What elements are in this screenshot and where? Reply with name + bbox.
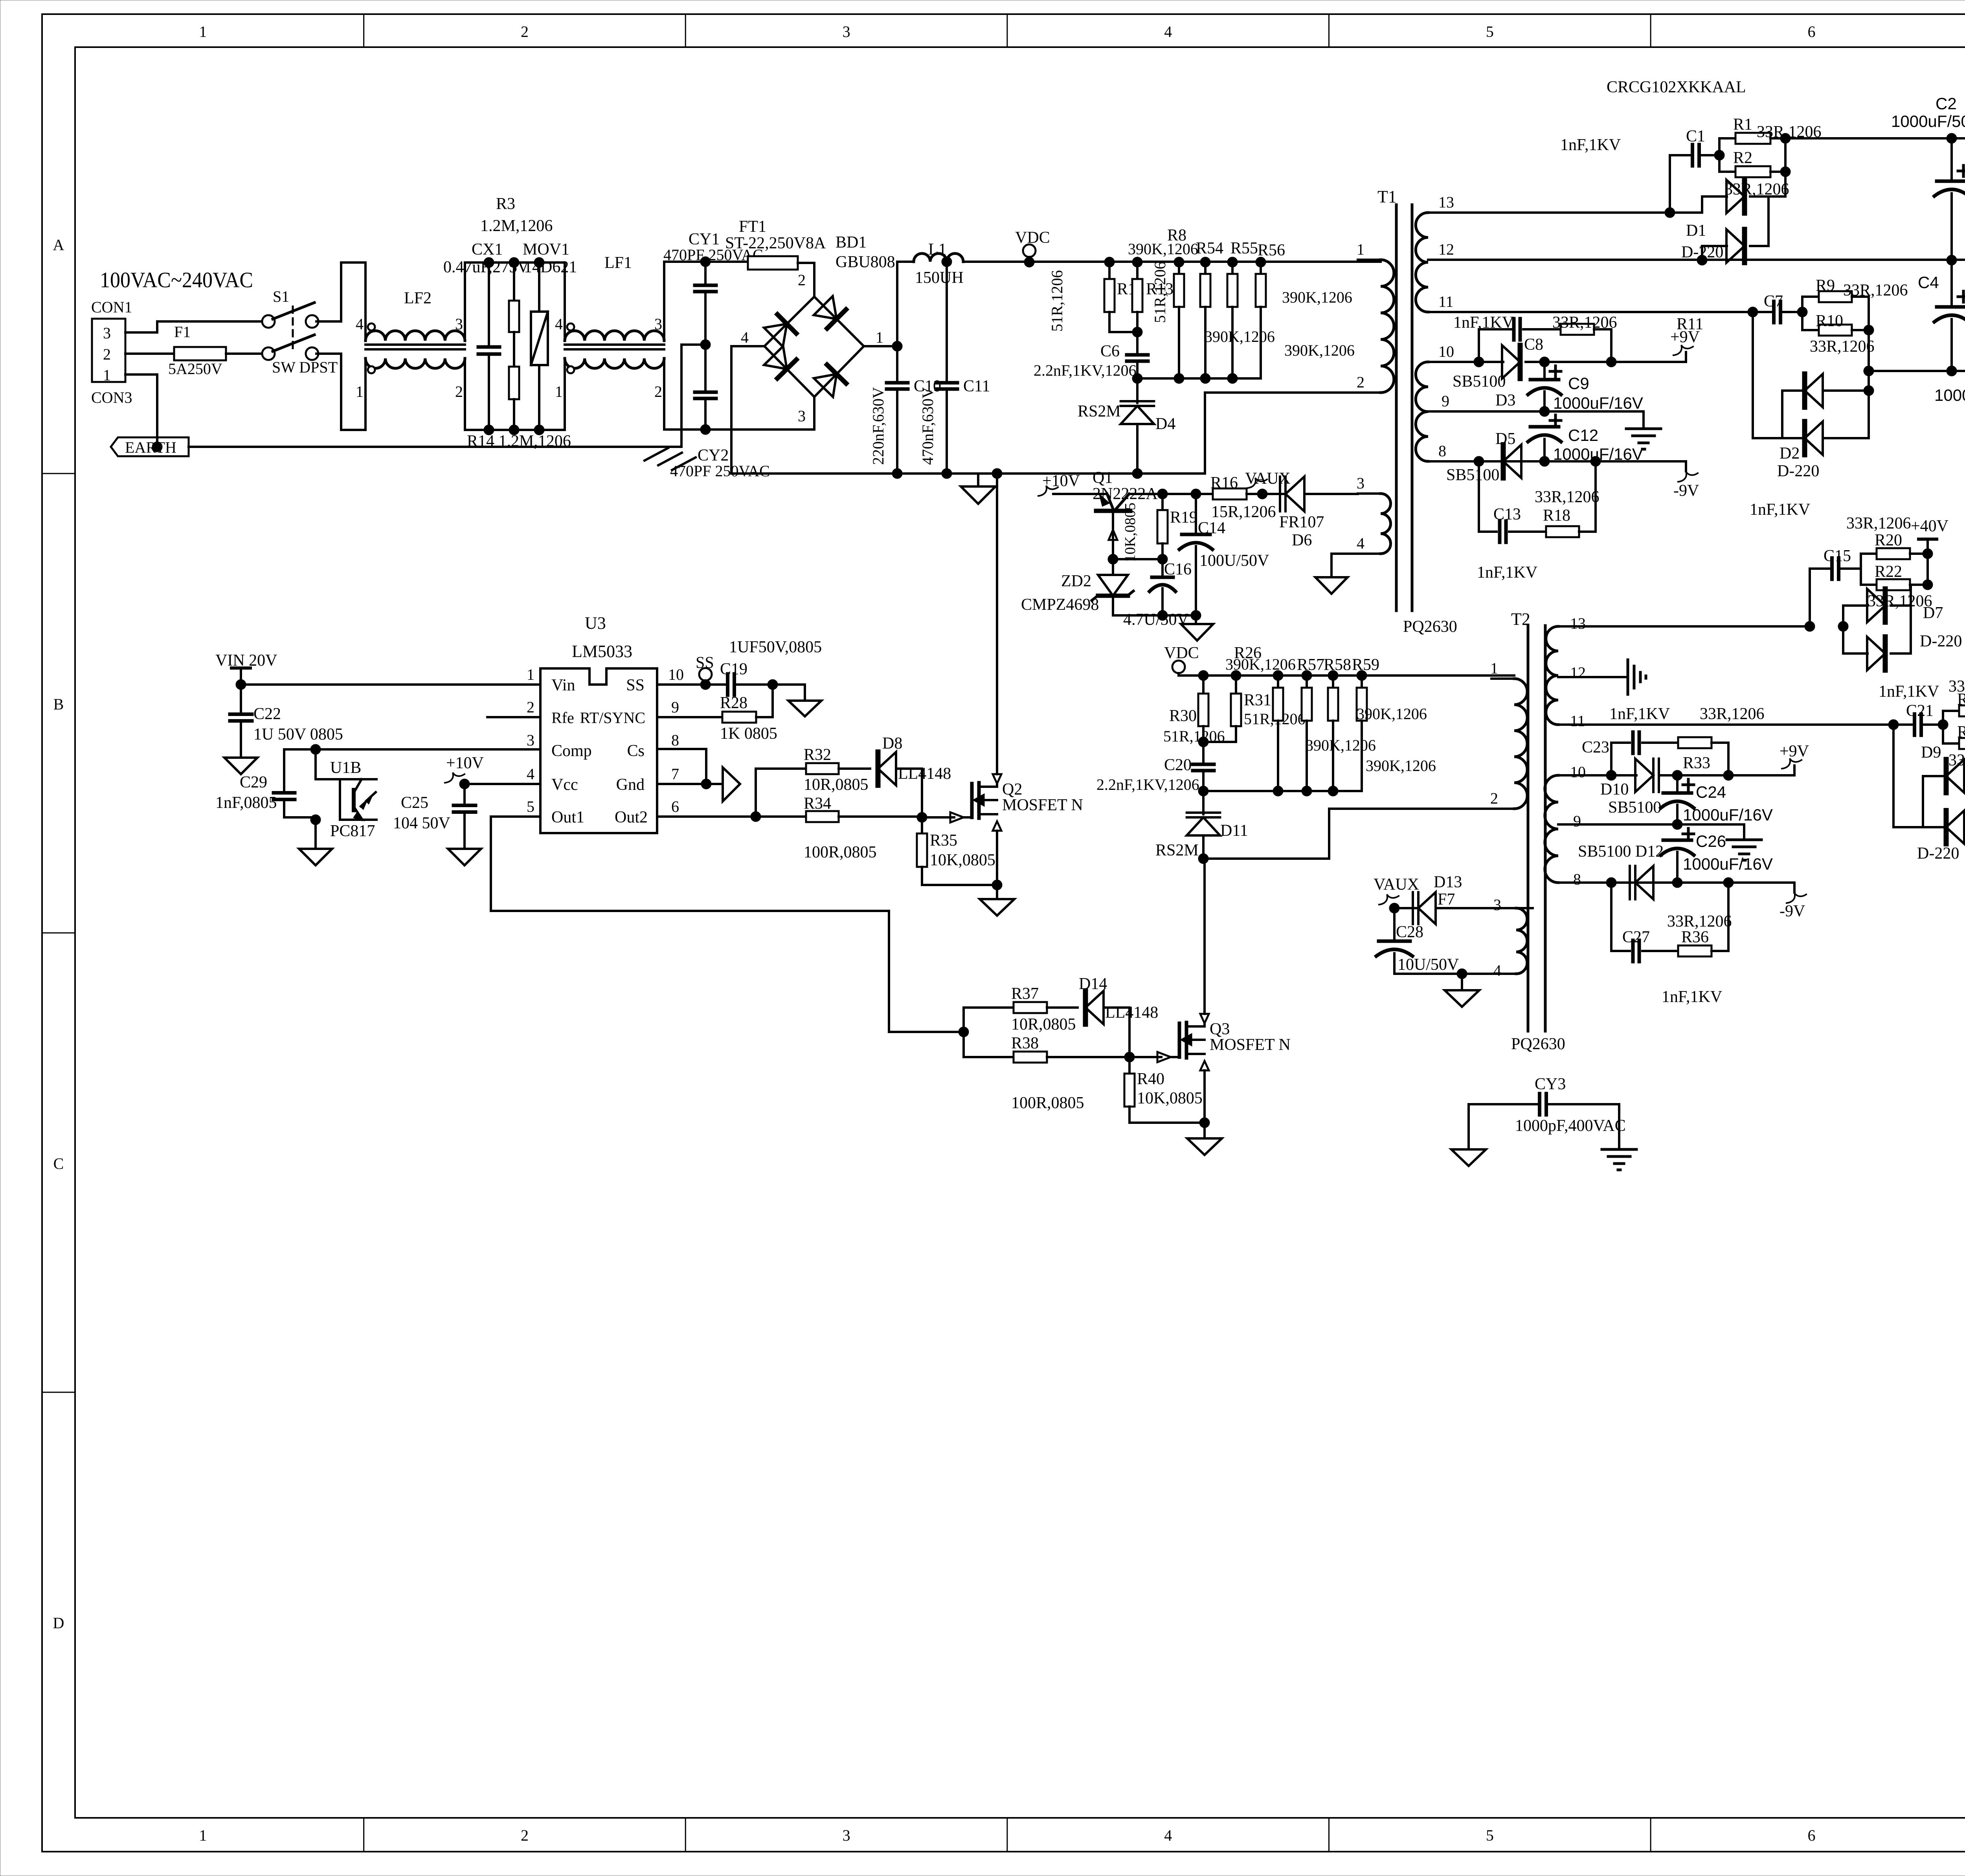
svg-text:D13: D13 — [1434, 873, 1462, 891]
wire Q1 base to R19/C16 node — [1108, 554, 1162, 576]
wire T1 pin9 to gnd — [1454, 411, 1644, 429]
svg-text:R2: R2 — [1733, 149, 1752, 167]
capacitor C24 1000uF/16V — [1661, 775, 1773, 830]
fuse FT1 — [725, 218, 826, 270]
capacitor C26 1000uF/16V — [1661, 828, 1773, 888]
svg-text:2: 2 — [654, 383, 662, 400]
svg-text:GBU808: GBU808 — [836, 253, 895, 271]
wire F1 to S1 — [226, 352, 264, 355]
svg-text:D-220: D-220 — [1777, 462, 1819, 480]
svg-text:10: 10 — [668, 666, 684, 683]
svg-text:R38: R38 — [1011, 1034, 1039, 1052]
svg-text:1nF,1KV: 1nF,1KV — [1879, 683, 1939, 701]
svg-text:R59: R59 — [1352, 656, 1379, 674]
svg-text:R10: R10 — [1816, 312, 1843, 330]
MOSFET Q2 — [922, 780, 1083, 822]
svg-text:1: 1 — [555, 383, 563, 400]
transformer T1 — [1357, 187, 1457, 636]
svg-text:2: 2 — [1490, 789, 1498, 807]
wire T1 pin13 to D1 — [1454, 207, 1702, 218]
svg-text:R28: R28 — [720, 694, 747, 712]
label CRCG102XKKAAL — [1607, 78, 1746, 96]
svg-text:1: 1 — [1490, 659, 1498, 677]
capacitor C28 — [1376, 908, 1499, 979]
resistor R54 — [1196, 239, 1223, 384]
svg-text:C20: C20 — [1164, 756, 1192, 774]
diode D14 LL4148 — [1079, 975, 1158, 1057]
svg-text:1000uF/16V: 1000uF/16V — [1553, 394, 1643, 412]
svg-text:C22: C22 — [253, 705, 281, 723]
resistor R10 — [1802, 312, 1875, 356]
buffer symbol (Cs) — [723, 767, 740, 801]
diode D1 D-220 (dual) — [1681, 138, 1785, 262]
wire CON1 pin3 to S1 — [125, 321, 264, 332]
diode D2 D-220 (dual) — [1753, 297, 1874, 480]
wire U3 pin3 (Comp) — [284, 744, 540, 754]
svg-text:D6: D6 — [1292, 531, 1312, 549]
svg-text:Out1: Out1 — [551, 808, 584, 826]
svg-text:390K,1206: 390K,1206 — [1225, 655, 1296, 673]
svg-text:1nF,1KV: 1nF,1KV — [1453, 314, 1514, 332]
svg-text:SB5100 D12: SB5100 D12 — [1578, 843, 1664, 861]
svg-text:2: 2 — [103, 345, 111, 363]
svg-text:1nF,0805: 1nF,0805 — [215, 794, 277, 812]
diode D8 LL4148 — [878, 734, 951, 817]
diode D7 D-220 (dual) — [1843, 585, 1962, 701]
node VIN 20V — [215, 652, 277, 690]
svg-text:C23: C23 — [1582, 738, 1609, 756]
svg-text:S1: S1 — [273, 288, 289, 305]
svg-text:CON1: CON1 — [91, 298, 132, 316]
svg-text:C29: C29 — [240, 773, 267, 791]
svg-text:D5: D5 — [1495, 430, 1515, 448]
svg-text:1: 1 — [199, 23, 207, 40]
ground Q2 source — [980, 885, 1014, 916]
svg-text:SB5100: SB5100 — [1453, 373, 1506, 391]
svg-text:C: C — [53, 1155, 64, 1173]
wire T2 pin9 to gnd — [1584, 824, 1744, 840]
resistor R33 — [1678, 737, 1734, 780]
svg-text:Rfe: Rfe — [551, 709, 574, 727]
resistor R57 — [1297, 656, 1324, 796]
capacitor C12 1000uF/16V — [1528, 415, 1643, 466]
wire LF2 pin2 to LF1 pin1 (bottom rail) — [484, 425, 565, 435]
svg-text:VDC: VDC — [1164, 644, 1199, 662]
svg-text:CON3: CON3 — [91, 389, 132, 406]
svg-text:FR107: FR107 — [1279, 513, 1324, 531]
wire aux gnd node — [1113, 615, 1196, 624]
capacitor C20 — [1096, 742, 1214, 796]
node VDC (primary) — [1015, 229, 1050, 262]
svg-text:R56: R56 — [1258, 241, 1285, 259]
ground C25 — [448, 849, 481, 865]
ground (C14/C16/ZD2) — [1123, 611, 1213, 641]
node +10V (Vcc) — [445, 754, 540, 789]
resistor R11 — [1561, 315, 1703, 367]
resistor R30 — [1163, 670, 1225, 747]
svg-text:VAUX: VAUX — [1245, 470, 1291, 488]
svg-text:F1: F1 — [174, 323, 191, 341]
svg-text:R58: R58 — [1324, 656, 1351, 674]
wire R32 to D8 — [839, 767, 870, 770]
capacitor C19 — [720, 638, 822, 695]
svg-text:33R,1206: 33R,1206 — [1667, 912, 1732, 931]
svg-text:3: 3 — [843, 23, 850, 40]
MOSFET Q3 — [1129, 1020, 1291, 1062]
svg-text:1UF50V,0805: 1UF50V,0805 — [729, 638, 822, 656]
svg-text:1K 0805: 1K 0805 — [720, 725, 777, 743]
svg-text:R18: R18 — [1543, 507, 1570, 525]
svg-text:Comp: Comp — [551, 742, 592, 760]
svg-text:SB5100: SB5100 — [1446, 466, 1499, 484]
wire Q3 source down — [1199, 1061, 1210, 1128]
svg-text:12: 12 — [1570, 664, 1586, 681]
capacitor C9 1000uF/16V — [1528, 362, 1643, 417]
svg-text:RT/SYNC: RT/SYNC — [580, 709, 645, 727]
capacitor C25 — [393, 784, 476, 849]
earth ground on EARTH rail — [645, 447, 696, 470]
resistor R40 — [1124, 1057, 1205, 1123]
svg-text:4: 4 — [1493, 962, 1501, 979]
resistor R26 — [1225, 644, 1296, 796]
resistor R12 — [1048, 257, 1144, 332]
resistor R18 — [1535, 461, 1600, 537]
svg-text:SB5100: SB5100 — [1608, 798, 1661, 817]
svg-text:1U 50V 0805: 1U 50V 0805 — [253, 725, 343, 743]
svg-text:ST-22,250V8A: ST-22,250V8A — [725, 234, 826, 252]
wire Q1 collector rail — [1129, 489, 1213, 499]
wire CON1 pin2 to F1 — [125, 352, 174, 355]
svg-text:VDC: VDC — [1015, 229, 1050, 247]
wire R16 to D6 — [1247, 489, 1286, 499]
svg-text:9: 9 — [1442, 392, 1449, 410]
svg-text:PQ2630: PQ2630 — [1511, 1035, 1565, 1053]
wire T2 pin12 — [1584, 676, 1627, 678]
wire VDC2 — [1179, 675, 1203, 676]
svg-text:R32: R32 — [804, 746, 831, 764]
svg-text:14D621: 14D621 — [524, 258, 577, 276]
transistor Q1 2N2222A — [1093, 469, 1158, 559]
wire R26 bank bottom node — [1203, 790, 1362, 792]
svg-text:T2: T2 — [1511, 609, 1530, 629]
svg-text:100VAC~240VAC: 100VAC~240VAC — [100, 268, 253, 292]
svg-text:MOSFET N: MOSFET N — [1002, 796, 1083, 814]
wire T1 pin12 mid rail (GND) — [1454, 255, 1957, 265]
svg-text:D-220: D-220 — [1917, 844, 1959, 863]
svg-text:ZD2: ZD2 — [1061, 572, 1091, 590]
svg-text:C19: C19 — [720, 660, 747, 678]
svg-text:+10V: +10V — [446, 754, 484, 772]
svg-text:33R,1206: 33R,1206 — [1552, 314, 1617, 332]
svg-text:4: 4 — [1357, 534, 1364, 552]
svg-text:1nF,1KV: 1nF,1KV — [1560, 136, 1621, 154]
svg-text:SW DPST: SW DPST — [272, 358, 338, 376]
ground T1 pin4 — [1315, 577, 1348, 594]
svg-text:390K,1206: 390K,1206 — [1205, 328, 1275, 345]
svg-text:R29: R29 — [1957, 723, 1965, 741]
svg-text:2: 2 — [1357, 373, 1364, 391]
svg-text:390K,1206: 390K,1206 — [1128, 240, 1198, 258]
capacitor C15 — [1750, 501, 1861, 626]
resistor R59 — [1352, 656, 1436, 791]
svg-text:FT1: FT1 — [739, 218, 766, 236]
svg-text:C27: C27 — [1622, 928, 1650, 946]
svg-text:1nF,1KV: 1nF,1KV — [1750, 501, 1810, 519]
wire S1 to LF2 pin4 — [316, 262, 365, 321]
svg-text:51R,1206: 51R,1206 — [1151, 261, 1169, 323]
node VAUX — [1245, 470, 1291, 488]
svg-text:2: 2 — [521, 1826, 529, 1844]
diode D9 D-220 (dual) — [1893, 711, 1965, 863]
wire T1 pin11 to C7 — [1454, 307, 1758, 317]
resistor R29 — [1943, 723, 1965, 769]
node +9V (D3) — [1670, 328, 1700, 362]
svg-text:8: 8 — [1438, 442, 1446, 460]
svg-text:CX1: CX1 — [472, 240, 503, 259]
wire FT1 to bridge pin2 — [798, 263, 814, 297]
svg-text:D: D — [53, 1614, 64, 1632]
svg-text:12: 12 — [1438, 240, 1454, 258]
resistor R9 — [1802, 277, 1908, 312]
svg-text:1nF,1KV: 1nF,1KV — [1477, 564, 1537, 582]
svg-text:L1: L1 — [928, 240, 947, 259]
diode D6 FR107 — [1279, 477, 1358, 549]
capacitor C16 — [1150, 560, 1192, 620]
capacitor CX1 — [443, 240, 529, 430]
svg-text:51R,1206: 51R,1206 — [1048, 270, 1066, 332]
svg-text:1nF,1KV: 1nF,1KV — [1609, 705, 1670, 723]
wire CY1/CY2 mid to EARTH rail — [681, 345, 705, 447]
svg-text:10R,0805: 10R,0805 — [1011, 1015, 1076, 1033]
resistor R27 — [1943, 677, 1965, 725]
resistor R19 — [1122, 494, 1197, 564]
ground Q3 source — [1187, 1123, 1222, 1155]
svg-text:390K,1206: 390K,1206 — [1357, 705, 1427, 723]
earth ground (T2 pin9) — [1727, 840, 1761, 860]
svg-text:VAUX: VAUX — [1374, 876, 1419, 894]
svg-text:A: A — [53, 236, 64, 254]
svg-text:3: 3 — [1357, 474, 1364, 492]
wire C6/R8 bank bottom node — [1137, 377, 1261, 380]
svg-text:C12: C12 — [1568, 426, 1598, 444]
diode D13 F7 — [1394, 890, 1533, 924]
svg-text:3: 3 — [654, 315, 662, 333]
svg-text:F7: F7 — [1438, 890, 1455, 909]
svg-text:D10: D10 — [1600, 780, 1629, 798]
svg-text:R35: R35 — [930, 832, 957, 850]
node SS — [696, 654, 714, 690]
snubber C13 — [1477, 461, 1546, 582]
capacitor C22 — [230, 685, 343, 758]
svg-text:33R,1206: 33R,1206 — [1810, 338, 1875, 356]
svg-text:10K,0805: 10K,0805 — [1137, 1089, 1203, 1107]
wire VIN to U3 pin1 — [241, 683, 540, 686]
svg-text:4: 4 — [555, 315, 563, 333]
svg-text:R36: R36 — [1681, 928, 1709, 946]
svg-text:5A250V: 5A250V — [168, 360, 222, 378]
svg-text:C21: C21 — [1906, 702, 1934, 720]
varistor MOV1 — [523, 240, 577, 430]
wire Q2 source down — [992, 821, 1002, 890]
svg-text:C16: C16 — [1164, 560, 1192, 578]
svg-text:2: 2 — [527, 698, 534, 716]
switch S1 — [262, 288, 338, 376]
svg-text:5: 5 — [1486, 23, 1494, 40]
wire mid rail GND right — [1952, 255, 1965, 265]
svg-text:C7: C7 — [1764, 292, 1783, 310]
svg-text:D14: D14 — [1079, 975, 1107, 993]
capacitor C14 — [1179, 494, 1269, 620]
svg-text:C24: C24 — [1696, 783, 1726, 801]
svg-text:R19: R19 — [1170, 508, 1197, 527]
snubber C8 — [1479, 319, 1561, 362]
wire T2 pin13 to D7 — [1584, 621, 1848, 631]
svg-text:R1: R1 — [1733, 116, 1752, 134]
diode D10 SB5100 — [1600, 759, 1794, 817]
svg-text:390K,1206: 390K,1206 — [1306, 736, 1376, 754]
svg-text:Vin: Vin — [551, 676, 575, 694]
svg-text:13: 13 — [1570, 615, 1586, 632]
wire Q2 drain to return rail — [992, 468, 1002, 787]
wire T2 pin11 to C21 — [1584, 720, 1899, 730]
svg-text:D1: D1 — [1686, 222, 1706, 240]
svg-text:EARTH: EARTH — [125, 439, 176, 456]
svg-text:D3: D3 — [1495, 391, 1515, 409]
bridge rectifier BD1 GBU808 — [741, 233, 895, 425]
svg-text:1: 1 — [876, 329, 883, 346]
svg-text:11: 11 — [1438, 293, 1454, 310]
diode D12 SB5100 — [1578, 843, 1664, 899]
capacitor C1 — [1560, 127, 1724, 213]
wire Out2 to R32 — [756, 769, 806, 817]
svg-text:MOV1: MOV1 — [523, 240, 569, 259]
svg-text:1: 1 — [103, 366, 111, 384]
resistor R55 — [1205, 239, 1275, 384]
svg-text:LF2: LF2 — [404, 289, 432, 307]
resistor R16 — [1210, 474, 1276, 521]
wire LF1 pin2 to bridge pin3 — [689, 397, 814, 430]
node VDC (push-pull 2) — [1164, 644, 1514, 676]
svg-text:R33: R33 — [1683, 754, 1710, 772]
wire primary return to T1 pin2 — [997, 393, 1358, 474]
svg-text:1nF,1KV: 1nF,1KV — [1662, 988, 1722, 1006]
node -9V (D12) — [1780, 883, 1806, 920]
svg-text:R54: R54 — [1196, 239, 1223, 257]
svg-text:R57: R57 — [1297, 656, 1324, 674]
svg-text:1000uF/50V: 1000uF/50V — [1934, 386, 1965, 404]
svg-text:D-220: D-220 — [1920, 632, 1962, 650]
svg-text:10K,0805: 10K,0805 — [1122, 503, 1139, 562]
label 33R,1206 (R27) — [1700, 705, 1765, 723]
resistor R3 — [480, 195, 553, 332]
svg-text:RS2M: RS2M — [1155, 841, 1199, 859]
svg-text:150UH: 150UH — [915, 269, 964, 287]
label D13 — [1434, 873, 1462, 891]
wire U3 pin10 to C19 — [657, 683, 726, 686]
svg-text:R20: R20 — [1875, 531, 1902, 549]
svg-text:R3: R3 — [496, 195, 515, 213]
svg-text:1: 1 — [1357, 240, 1364, 258]
svg-text:C4: C4 — [1918, 273, 1939, 292]
svg-text:4: 4 — [1164, 1826, 1172, 1844]
wire +40V rail — [1785, 133, 1965, 143]
wire T2 pin10 to D10 — [1584, 770, 1636, 780]
capacitor C2 1000uF/50V — [1891, 94, 1965, 260]
svg-text:33R,1206: 33R,1206 — [1868, 592, 1932, 610]
svg-text:C9: C9 — [1568, 374, 1589, 393]
resistor R35 — [917, 817, 997, 885]
wire T2 pin8 to -9V — [1584, 877, 1794, 888]
svg-text:T1: T1 — [1377, 187, 1397, 206]
capacitor C4 1000uF/50V — [1918, 260, 1965, 404]
svg-text:U1B: U1B — [330, 759, 361, 777]
svg-text:2.2nF,1KV,1206: 2.2nF,1KV,1206 — [1096, 776, 1199, 793]
svg-text:470nF,630V: 470nF,630V — [919, 387, 937, 465]
svg-text:R34: R34 — [804, 795, 831, 813]
diode D4 RS2M — [1078, 378, 1175, 479]
svg-text:4.7U/50V: 4.7U/50V — [1123, 611, 1189, 629]
node +9V (D10) — [1780, 742, 1809, 775]
svg-text:1: 1 — [356, 383, 364, 400]
resistor R38 — [964, 1032, 1135, 1112]
wire L1 to VDC rail / T1 pin1 — [942, 257, 1381, 267]
ground CY3 left — [1451, 1149, 1486, 1166]
wire T1 pin8 to -9V — [1454, 456, 1686, 466]
svg-text:5: 5 — [1486, 1826, 1494, 1844]
svg-text:C6: C6 — [1100, 342, 1120, 360]
svg-text:C28: C28 — [1396, 923, 1423, 941]
svg-text:13: 13 — [1438, 193, 1454, 211]
svg-text:C2: C2 — [1936, 94, 1957, 113]
wire T1 pin4 to ground — [1331, 554, 1358, 577]
wire D11 node to T2 pin2 — [1203, 809, 1491, 859]
wire U3 pin7 (Gnd) — [657, 783, 723, 785]
capacitor C10 — [869, 346, 941, 479]
capacitor C29 — [215, 749, 316, 817]
svg-text:6: 6 — [671, 798, 679, 815]
svg-text:R31: R31 — [1244, 691, 1271, 709]
svg-text:C15: C15 — [1824, 547, 1851, 565]
svg-text:R16: R16 — [1210, 474, 1238, 492]
svg-text:Gnd: Gnd — [616, 776, 645, 794]
resistor R2 — [1719, 149, 1791, 198]
svg-text:33R,1206: 33R,1206 — [1535, 488, 1600, 506]
svg-text:C8: C8 — [1524, 336, 1543, 354]
capacitor C21 — [1893, 702, 1948, 735]
resistor R1 — [1719, 116, 1822, 155]
svg-text:9: 9 — [1573, 812, 1581, 830]
svg-text:C25: C25 — [401, 794, 428, 812]
svg-text:390K,1206: 390K,1206 — [1284, 341, 1355, 359]
svg-text:SS: SS — [626, 676, 645, 694]
svg-text:6: 6 — [1807, 23, 1815, 40]
svg-text:RS2M: RS2M — [1078, 402, 1121, 420]
node +10V (Q1 emitter) — [1038, 472, 1107, 496]
svg-text:-9V: -9V — [1673, 482, 1699, 500]
svg-text:CRCG102XKKAAL: CRCG102XKKAAL — [1607, 78, 1746, 96]
svg-text:CMPZ4698: CMPZ4698 — [1021, 596, 1099, 614]
snubber C23 — [1582, 732, 1678, 775]
svg-text:C13: C13 — [1493, 505, 1521, 523]
svg-text:C11: C11 — [963, 377, 990, 395]
svg-text:D2: D2 — [1780, 444, 1800, 463]
wire T1 pin10 to D3 — [1454, 357, 1503, 367]
svg-text:11: 11 — [1570, 712, 1585, 730]
common-mode choke LF1 — [555, 254, 689, 430]
svg-text:R22: R22 — [1875, 563, 1902, 581]
wire Q3 drain up to T2 clamp node — [1200, 859, 1209, 1026]
resistor R37 — [964, 985, 1078, 1033]
